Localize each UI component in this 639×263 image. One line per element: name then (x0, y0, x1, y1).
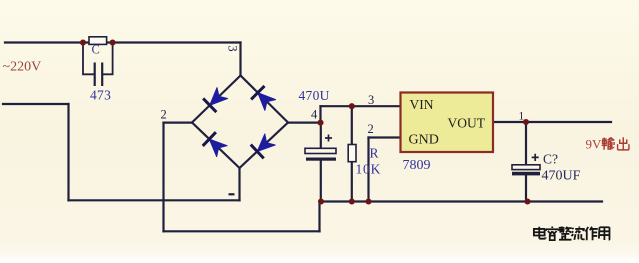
wire GND vertical (367, 138, 369, 202)
label 3 rotated at bridge top (226, 45, 240, 51)
bridge rectifier edge bottom-left (192, 123, 240, 169)
plus sign C1 (325, 135, 332, 142)
wire R1 bottom lead (351, 162, 353, 202)
junction dot rail at R (349, 198, 355, 204)
svg-text:7809: 7809 (403, 158, 431, 173)
junction dot R top (349, 103, 355, 109)
junction dot node 4 (317, 120, 323, 126)
svg-text:4: 4 (311, 108, 318, 122)
svg-text:VOUT: VOUT (448, 116, 486, 131)
svg-text:~220V: ~220V (3, 60, 42, 75)
wire rail B left riser (162, 123, 164, 232)
capacitor C 473 parallel loop wires (83, 43, 113, 87)
junction dot rail at GND (365, 198, 371, 204)
wire node 4 riser (319, 106, 321, 122)
wire node 2 stub (164, 121, 193, 123)
diode D1 top-left (203, 86, 229, 112)
junction dot left of dropper (80, 39, 86, 45)
svg-text:VIN: VIN (410, 97, 434, 112)
wire drop to bridge top corner (239, 43, 241, 76)
wire C1 top lead (320, 123, 322, 149)
diode D2 top-right (251, 86, 277, 112)
junction dot output node (523, 119, 529, 125)
svg-text:3: 3 (368, 93, 374, 107)
caption black text bottom right (534, 227, 610, 241)
svg-text:C?: C? (543, 152, 558, 167)
wire left vertical down (67, 104, 69, 200)
diode D3 bottom-left (203, 132, 229, 158)
wire rail B (164, 230, 320, 232)
svg-text:473: 473 (90, 88, 111, 103)
wire C2 top lead (525, 122, 527, 165)
svg-text:C: C (92, 43, 100, 57)
svg-text:470U: 470U (299, 88, 330, 103)
bridge rectifier edge top-left (192, 76, 241, 123)
capacitor C2 output electrolytic plates (512, 165, 540, 170)
bridge rectifier edge bottom-right (240, 123, 289, 169)
junction dot rail at C1 (318, 198, 324, 204)
bridge rectifier edge top-right (241, 76, 289, 123)
diode D4 bottom-right (251, 133, 277, 159)
wire C2 bottom lead (525, 175, 527, 202)
resistor (dropper bleeder) box on AC line (89, 37, 107, 45)
wire bottom rail A (69, 199, 240, 201)
svg-text:9V: 9V (586, 137, 603, 152)
svg-text:3: 3 (226, 45, 240, 51)
plus sign C2 (532, 154, 539, 161)
wire rail B right riser (318, 202, 320, 232)
wire VOUT output (493, 121, 611, 123)
wire GND pin horizontal (369, 136, 401, 138)
svg-text:R: R (370, 146, 379, 161)
capacitor C1 electrolytic plates (305, 148, 336, 153)
minus sign at bridge bottom (229, 193, 235, 195)
wire AC line 2 left (3, 103, 69, 105)
svg-text:470UF: 470UF (542, 169, 581, 184)
wire C1 bottom lead (320, 161, 322, 202)
svg-text:GND: GND (409, 133, 439, 148)
wire AC line 1 top (5, 41, 241, 43)
wire node 4 stub (288, 121, 321, 123)
svg-text:2: 2 (368, 122, 374, 136)
svg-text:10K: 10K (356, 162, 382, 177)
junction dot rail at C2 (524, 198, 530, 204)
svg-text:2: 2 (161, 108, 167, 122)
wire bottom rail right (321, 200, 602, 202)
wire riser to bridge bottom corner (238, 168, 240, 200)
junction dot right of dropper (110, 39, 116, 45)
label 9V output red (586, 137, 629, 152)
wire to VIN pin (321, 105, 401, 107)
resistor R1 box (348, 145, 356, 162)
wire R1 top lead (351, 106, 353, 144)
op-amp U1 regulator 7809 box (401, 93, 494, 153)
